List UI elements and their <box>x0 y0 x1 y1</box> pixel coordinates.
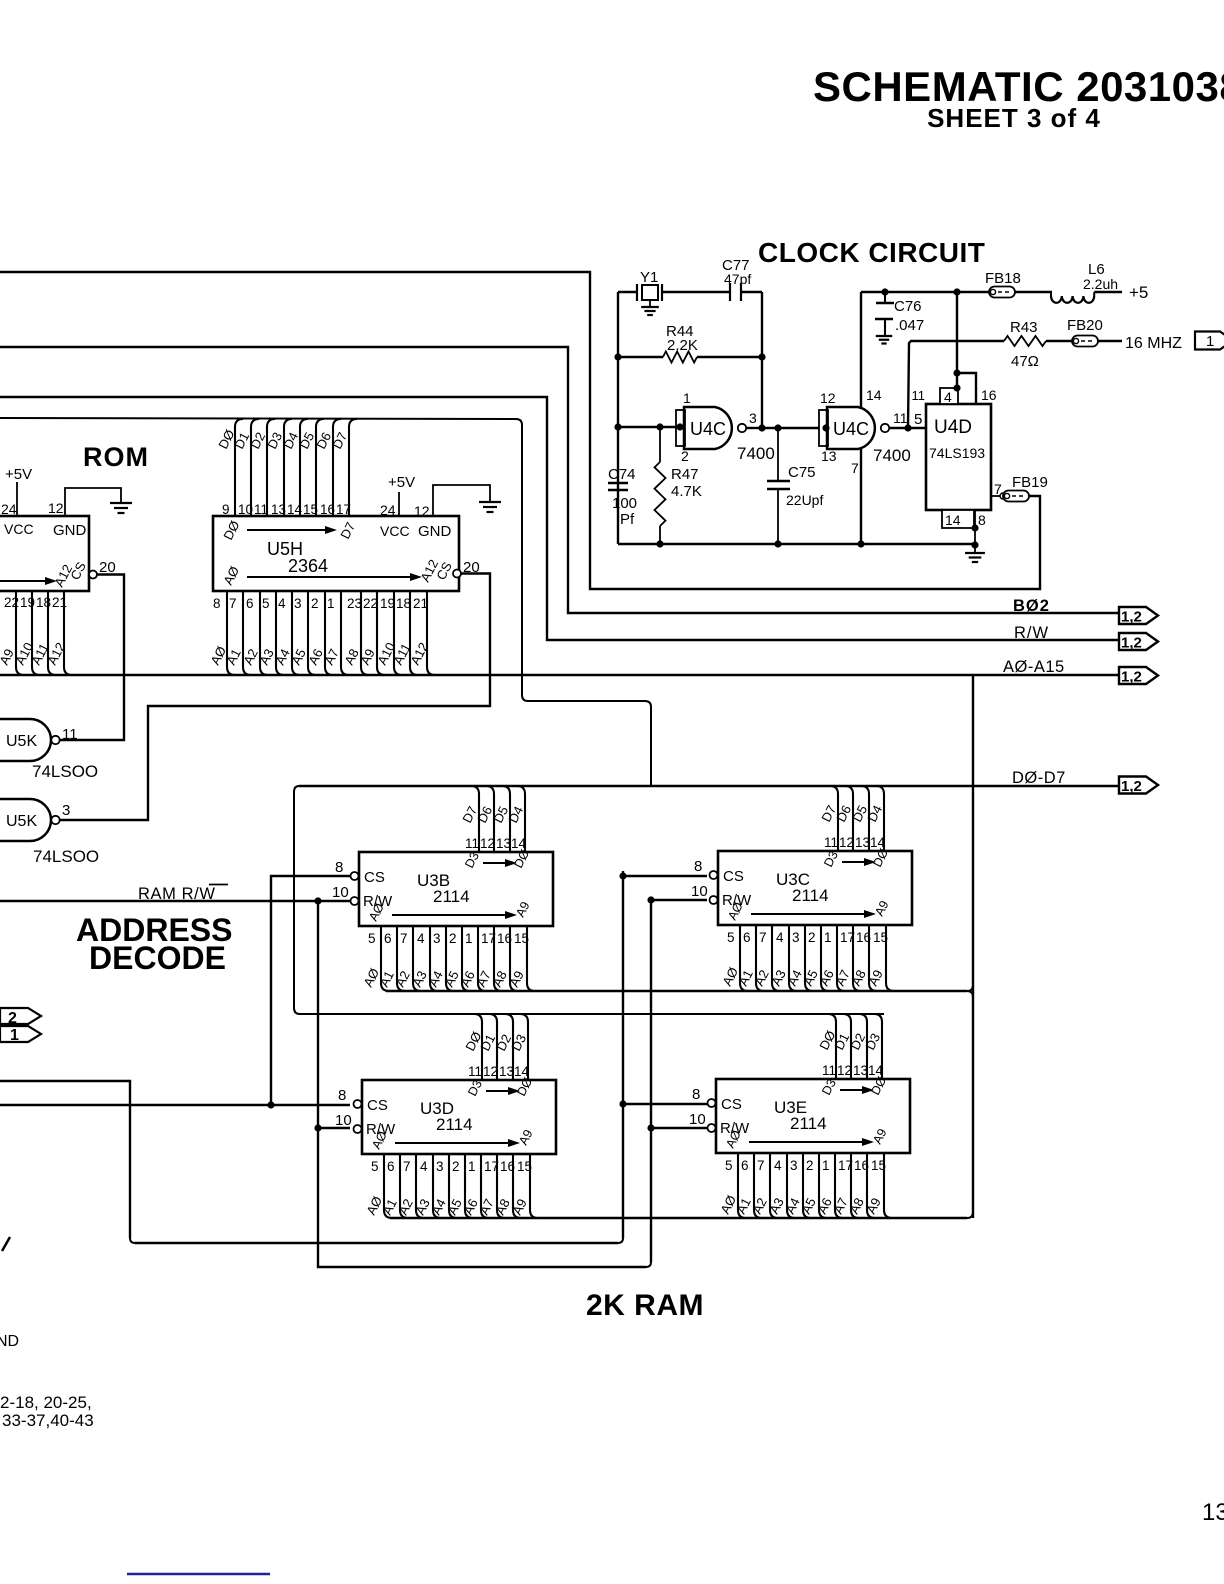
subtitle SHEET 3 of 4 <box>927 103 1101 133</box>
svg-text:13: 13 <box>853 1063 868 1078</box>
net label 16 MHZ <box>1125 335 1182 352</box>
svg-text:AØ-A15: AØ-A15 <box>1003 658 1065 676</box>
wire B02 to connector <box>0 347 1119 613</box>
U5G address labels <box>0 640 68 667</box>
U5G pin 24 +5V <box>1 466 32 517</box>
svg-text:CS: CS <box>367 1097 388 1114</box>
svg-text:1: 1 <box>824 930 832 945</box>
U5G internal A arrow <box>0 559 89 589</box>
U3C CS bubble pin 8 <box>694 858 718 879</box>
svg-text:12: 12 <box>480 836 495 851</box>
svg-text:11: 11 <box>912 388 926 403</box>
U3D R/W bubble pin 10 <box>335 1112 362 1133</box>
svg-text:24: 24 <box>1 501 17 517</box>
svg-text:15: 15 <box>871 1158 886 1173</box>
svg-text:8: 8 <box>338 1087 346 1104</box>
svg-text:23: 23 <box>347 596 362 611</box>
blue mark <box>127 1573 270 1575</box>
svg-text:17: 17 <box>481 931 496 946</box>
section label CLOCK CIRCUIT <box>758 237 985 268</box>
U5H pin 12 GND wire <box>414 485 490 519</box>
connector arrow from sheet 1 <box>0 1026 41 1044</box>
svg-text:C76: C76 <box>894 298 922 315</box>
svg-text:13: 13 <box>821 448 837 464</box>
page number 13 <box>1202 1499 1224 1526</box>
svg-text:7400: 7400 <box>737 444 775 463</box>
svg-text:11: 11 <box>468 1064 482 1079</box>
svg-text:FB19: FB19 <box>1012 474 1048 491</box>
resistor R43 47ohm <box>1004 319 1046 370</box>
net label R/W <box>1014 624 1049 642</box>
U3B data labels <box>459 804 526 826</box>
svg-text:12: 12 <box>48 500 64 516</box>
svg-text:17: 17 <box>336 502 351 517</box>
svg-text:FB18: FB18 <box>985 270 1021 287</box>
svg-text:4: 4 <box>774 1158 782 1173</box>
svg-text:2: 2 <box>808 930 816 945</box>
capacitor C75 22Upf <box>767 428 823 544</box>
svg-text:2: 2 <box>806 1158 814 1173</box>
svg-text:16: 16 <box>856 930 871 945</box>
U3E data pin numbers <box>822 1063 884 1078</box>
svg-text:U4D: U4D <box>934 417 972 438</box>
net label B02 <box>1013 597 1050 615</box>
U3E internal A arrow <box>723 1126 889 1150</box>
svg-text:1: 1 <box>1206 333 1214 350</box>
svg-text:4: 4 <box>420 1159 428 1174</box>
svg-text:1: 1 <box>822 1158 830 1173</box>
wire D0-D7 bus from ROM <box>0 418 651 786</box>
connector arrow 16MHZ to sheet 1 <box>1195 332 1224 351</box>
svg-text:12: 12 <box>820 390 836 406</box>
U3E data labels <box>816 1028 883 1052</box>
svg-text:21: 21 <box>52 595 67 610</box>
U5H CS bubble pin 20 <box>453 559 480 578</box>
svg-text:1: 1 <box>468 1159 476 1174</box>
svg-text:22: 22 <box>4 595 19 610</box>
svg-text:14: 14 <box>511 836 527 851</box>
svg-text:17: 17 <box>838 1158 853 1173</box>
U3D label R/W <box>366 1121 396 1138</box>
svg-text:10: 10 <box>332 884 349 901</box>
U5H address pin stubs <box>227 591 435 675</box>
svg-text:2114: 2114 <box>436 1115 473 1134</box>
RAM chip U3E 2114 box <box>716 1079 910 1153</box>
svg-text:U4C: U4C <box>690 419 726 439</box>
wire CS to U3E pin <box>619 872 707 1107</box>
svg-text:11: 11 <box>254 502 268 517</box>
U5H internal D arrow <box>220 518 358 542</box>
svg-text:14: 14 <box>868 1063 884 1078</box>
U5G address pin stubs <box>0 591 72 675</box>
cut-off text fragment <box>2 1237 10 1251</box>
U3C address labels <box>719 965 886 989</box>
svg-text:8: 8 <box>978 512 986 528</box>
counter U4D 74LS193 <box>912 387 997 510</box>
svg-text:12: 12 <box>414 503 430 519</box>
svg-text:4: 4 <box>944 389 952 405</box>
svg-text:13: 13 <box>855 835 870 850</box>
wire U3B CS net <box>271 876 350 1105</box>
connector arrow from sheet 2 <box>0 1008 41 1027</box>
RAM chip U3C 2114 box <box>718 851 912 925</box>
U3D data pin stubs <box>474 1014 528 1080</box>
svg-text:2114: 2114 <box>792 886 829 905</box>
svg-text:1,2: 1,2 <box>1121 669 1142 686</box>
svg-text:CS: CS <box>364 869 385 886</box>
U3C internal D arrow <box>821 846 891 869</box>
cut-off note line 1 <box>0 1393 92 1412</box>
U5H label VCC <box>380 523 410 539</box>
svg-text:CS: CS <box>723 868 744 885</box>
U3E CS bubble pin 8 <box>692 1086 716 1107</box>
wire R/W to connector <box>0 397 1119 640</box>
U3B internal D arrow <box>462 847 532 870</box>
svg-text:1,2: 1,2 <box>1121 635 1142 652</box>
svg-text:2: 2 <box>681 448 689 464</box>
svg-text:R47: R47 <box>671 466 699 483</box>
svg-text:8: 8 <box>335 859 343 876</box>
svg-text:1,2: 1,2 <box>1121 609 1142 626</box>
svg-text:1,2: 1,2 <box>1121 778 1142 795</box>
svg-text:15: 15 <box>514 931 529 946</box>
wire 16MHZ net <box>908 341 1122 428</box>
svg-text:2.2K: 2.2K <box>667 337 698 354</box>
U5H internal A arrow <box>220 557 455 587</box>
wire U3D CS net from left <box>0 1101 350 1108</box>
U3D address pin stubs <box>384 1154 538 1218</box>
U3C address pin numbers <box>727 930 888 945</box>
svg-text:DECODE: DECODE <box>89 940 226 976</box>
svg-text:33-37,40-43: 33-37,40-43 <box>2 1411 94 1430</box>
wire D0-D7 bus row to connector <box>299 780 1119 786</box>
svg-text:2: 2 <box>8 1010 17 1027</box>
wire U4C-2 pin7 GND <box>860 449 862 544</box>
svg-text:10: 10 <box>691 883 708 900</box>
wire RAM R/W net <box>0 897 350 904</box>
svg-text:16: 16 <box>500 1159 515 1174</box>
svg-text:2114: 2114 <box>433 887 470 906</box>
svg-text:5: 5 <box>725 1158 733 1173</box>
U3C data pin stubs <box>830 786 884 851</box>
section label ROM <box>83 442 149 472</box>
svg-text:14: 14 <box>866 387 882 403</box>
U3B CS bubble pin 8 <box>335 859 359 880</box>
svg-text:74LSOO: 74LSOO <box>32 762 98 781</box>
U3D internal D arrow <box>465 1075 535 1098</box>
ferrite bead FB19 <box>1003 474 1048 502</box>
svg-text:18: 18 <box>36 595 51 610</box>
svg-text:+5: +5 <box>1129 283 1148 302</box>
U5G label VCC <box>4 521 34 537</box>
svg-text:3: 3 <box>294 596 302 611</box>
U5H data pin numbers <box>222 502 351 517</box>
svg-text:22: 22 <box>363 596 378 611</box>
U5H data pin stubs <box>235 419 357 516</box>
inductor L6 2.2uh <box>1051 261 1122 303</box>
svg-text:11: 11 <box>822 1063 836 1078</box>
svg-text:3: 3 <box>436 1159 444 1174</box>
U3D data labels <box>462 1029 529 1053</box>
svg-text:19: 19 <box>20 595 35 610</box>
svg-text:GND: GND <box>53 522 87 539</box>
U3C internal A arrow <box>725 898 891 922</box>
svg-text:5: 5 <box>368 931 376 946</box>
svg-text:2K RAM: 2K RAM <box>586 1289 704 1322</box>
svg-text:17: 17 <box>840 930 855 945</box>
svg-text:17: 17 <box>484 1159 499 1174</box>
wire U4C-1 input net <box>614 423 683 430</box>
U3B data pin stubs <box>471 786 525 852</box>
U3D data pin numbers <box>468 1064 530 1079</box>
wire RAM A-bus lower row <box>390 1212 973 1218</box>
ROM chip U5H 2364 <box>213 516 459 591</box>
svg-text:3: 3 <box>792 930 800 945</box>
svg-text:4.7K: 4.7K <box>671 483 702 500</box>
svg-text:15: 15 <box>873 930 888 945</box>
svg-text:16: 16 <box>497 931 512 946</box>
connector arrow B02 to sheets 1,2 <box>1119 607 1158 626</box>
svg-text:2-18, 20-25,: 2-18, 20-25, <box>0 1393 92 1412</box>
U5H pin 24 +5V <box>380 474 415 518</box>
wire U4C-1 output to U4C-2 input <box>762 424 819 431</box>
svg-text:7: 7 <box>229 596 237 611</box>
svg-text:13: 13 <box>1202 1499 1224 1526</box>
wire crystal top net <box>618 291 762 293</box>
U3B label CS <box>364 869 385 886</box>
svg-text:14: 14 <box>945 512 961 528</box>
svg-text:9: 9 <box>222 502 230 517</box>
nand gate U4C first (7400) <box>676 390 775 464</box>
svg-text:11: 11 <box>824 835 838 850</box>
cut-off text ND <box>0 1333 19 1350</box>
section label 2K RAM <box>586 1289 704 1322</box>
svg-text:7: 7 <box>403 1159 411 1174</box>
svg-text:13: 13 <box>496 836 511 851</box>
wire +5 top rail <box>861 288 1052 295</box>
svg-text:1: 1 <box>465 931 473 946</box>
resistor R47 4.7K <box>655 427 702 544</box>
wire B02 from clock to off-page left <box>0 272 1040 589</box>
ground ROM U5H <box>479 502 501 512</box>
svg-text:15: 15 <box>303 502 318 517</box>
U3E internal D arrow <box>819 1074 889 1097</box>
svg-text:8: 8 <box>213 596 221 611</box>
capacitor C77 47pf <box>722 257 751 301</box>
svg-text:3: 3 <box>749 410 757 426</box>
svg-text:74LSOO: 74LSOO <box>33 847 99 866</box>
svg-text:11: 11 <box>465 836 479 851</box>
wire U5G CS to U5K-1 output <box>59 575 124 741</box>
net label RAM R/W <box>138 885 228 904</box>
label 74LS00 second <box>33 847 99 866</box>
svg-text:ND: ND <box>0 1333 19 1350</box>
svg-text:7400: 7400 <box>873 446 911 465</box>
U3B internal A arrow <box>366 899 532 923</box>
wire R/W to U3E pin <box>651 1127 707 1129</box>
title text SCHEMATIC 2031038 <box>813 63 1224 110</box>
svg-text:3: 3 <box>790 1158 798 1173</box>
U3B data pin numbers <box>465 836 527 851</box>
wire right CS net from left <box>0 871 623 1243</box>
svg-text:BØ2: BØ2 <box>1013 597 1050 615</box>
wire RAM R/W drop to U3D <box>314 900 654 1267</box>
svg-text:CS: CS <box>721 1096 742 1113</box>
ferrite bead FB18 <box>985 270 1021 298</box>
svg-text:4: 4 <box>776 930 784 945</box>
U3C R/W bubble pin 10 <box>691 883 718 904</box>
U5H address labels A0-A12 <box>207 640 431 667</box>
label 74LS00 first <box>32 762 98 781</box>
U3D CS bubble pin 8 <box>338 1087 362 1108</box>
svg-text:U4C: U4C <box>833 419 869 439</box>
svg-text:6: 6 <box>246 596 254 611</box>
connector arrow R/W to sheets 1,2 <box>1119 633 1158 652</box>
svg-text:GND: GND <box>418 523 452 540</box>
svg-text:5: 5 <box>727 930 735 945</box>
svg-text:13: 13 <box>271 502 286 517</box>
net label +5 <box>1129 283 1148 302</box>
wire clock left rail <box>617 292 619 544</box>
svg-text:DØ-D7: DØ-D7 <box>1012 769 1066 787</box>
svg-text:VCC: VCC <box>4 521 34 537</box>
U3E data pin stubs <box>828 1014 882 1079</box>
ground clock circuit <box>965 553 985 562</box>
U3B address pin stubs <box>381 926 535 991</box>
svg-text:19: 19 <box>380 596 395 611</box>
svg-text:+5V: +5V <box>388 474 415 491</box>
net label A0-A15 <box>1003 658 1065 676</box>
svg-text:2: 2 <box>452 1159 460 1174</box>
svg-text:21: 21 <box>413 596 428 611</box>
svg-text:7: 7 <box>851 460 859 476</box>
svg-text:11: 11 <box>62 726 78 743</box>
U3E address pin numbers <box>725 1158 886 1173</box>
svg-text:2364: 2364 <box>288 556 328 576</box>
svg-text:11: 11 <box>893 410 908 426</box>
svg-text:10: 10 <box>689 1111 706 1128</box>
svg-text:2: 2 <box>449 931 457 946</box>
svg-text:C74: C74 <box>608 466 636 483</box>
wire U5K-2 output to U5H CS <box>59 574 490 821</box>
svg-text:SHEET 3 of 4: SHEET 3 of 4 <box>927 103 1101 133</box>
svg-text:22Upf: 22Upf <box>786 492 823 508</box>
svg-text:74LS193: 74LS193 <box>929 445 985 461</box>
svg-text:12: 12 <box>839 835 854 850</box>
svg-text:FB20: FB20 <box>1067 317 1103 334</box>
wire R/W to U3C pin <box>647 896 707 903</box>
U3E label R/W <box>720 1120 750 1137</box>
section label ADDRESS DECODE <box>76 912 232 976</box>
svg-text:Pf: Pf <box>620 511 635 528</box>
U4D pin 4 box <box>940 388 958 405</box>
resistor R44 2.2K <box>614 323 765 363</box>
svg-text:2.2uh: 2.2uh <box>1083 276 1118 292</box>
RAM chip U3B 2114 box <box>359 852 553 926</box>
svg-text:100: 100 <box>612 495 637 512</box>
svg-text:U5K: U5K <box>6 813 37 830</box>
svg-text:10: 10 <box>238 502 253 517</box>
U5H data labels D0-D7 <box>215 427 350 451</box>
svg-text:10: 10 <box>335 1112 352 1129</box>
svg-text:7: 7 <box>759 930 767 945</box>
wire U4C-2 pin14 VCC <box>860 292 862 407</box>
svg-text:1: 1 <box>10 1027 19 1044</box>
svg-text:R43: R43 <box>1010 319 1038 336</box>
svg-text:3: 3 <box>62 802 70 819</box>
U3C data pin numbers <box>824 835 886 850</box>
svg-text:U5K: U5K <box>6 733 37 750</box>
svg-text:15: 15 <box>517 1159 532 1174</box>
U5G CS bubble pin 20 <box>89 559 116 579</box>
svg-text:ROM: ROM <box>83 442 149 472</box>
svg-text:8: 8 <box>692 1086 700 1103</box>
connector arrow D0-D7 to sheets 1,2 <box>1119 777 1158 796</box>
svg-text:4: 4 <box>278 596 286 611</box>
ground ROM U5G <box>110 503 132 513</box>
svg-text:16: 16 <box>320 502 335 517</box>
svg-text:2: 2 <box>311 596 319 611</box>
svg-text:6: 6 <box>384 931 392 946</box>
wire U4C-2 output node to U4D pin5 <box>904 411 926 432</box>
svg-text:5: 5 <box>262 596 270 611</box>
svg-text:4: 4 <box>417 931 425 946</box>
nand gate U4C second (7400) <box>819 387 911 476</box>
cut-off note line 2 <box>2 1411 94 1430</box>
svg-text:.047: .047 <box>895 317 924 334</box>
wire CS to U3C pin <box>623 875 707 877</box>
svg-text:12: 12 <box>483 1064 498 1079</box>
nand gate U5K second (74LS00) <box>0 799 70 841</box>
svg-text:1: 1 <box>327 596 335 611</box>
wire U4D pin 8 ground <box>971 510 986 553</box>
nand gate U5K first (74LS00) <box>0 719 78 761</box>
svg-text:47Ω: 47Ω <box>1011 353 1039 370</box>
U4D pin 14 box <box>942 510 974 528</box>
svg-text:5: 5 <box>371 1159 379 1174</box>
wire clock right rail <box>761 292 763 428</box>
svg-text:CLOCK CIRCUIT: CLOCK CIRCUIT <box>758 237 985 268</box>
svg-text:7: 7 <box>400 931 408 946</box>
U3E address labels <box>717 1193 884 1217</box>
svg-text:13: 13 <box>499 1064 514 1079</box>
svg-text:6: 6 <box>387 1159 395 1174</box>
wire R/W to U3D pin <box>318 1127 350 1129</box>
wire D bus drop to lower RAM row <box>294 786 884 1014</box>
capacitor C74 100pf <box>608 466 637 528</box>
svg-text:Y1: Y1 <box>640 269 658 286</box>
svg-text:14: 14 <box>870 835 886 850</box>
svg-text:16 MHZ: 16 MHZ <box>1125 335 1182 352</box>
U5G pin 12 GND wire <box>48 488 121 516</box>
svg-text:2114: 2114 <box>790 1114 827 1133</box>
U3C label CS <box>723 868 744 885</box>
U3C address pin stubs <box>740 925 894 991</box>
svg-text:14: 14 <box>287 502 303 517</box>
crystal Y1 <box>637 269 662 315</box>
wire A0-A15 bus <box>0 674 1119 676</box>
U3D address pin numbers <box>371 1159 532 1174</box>
svg-text:1: 1 <box>683 390 691 406</box>
U5G pin numbers <box>4 595 67 610</box>
svg-text:8: 8 <box>694 858 702 875</box>
svg-text:3: 3 <box>433 931 441 946</box>
net label D0-D7 <box>1012 769 1066 787</box>
wire U4D +5 supply <box>953 292 976 404</box>
U3B address pin numbers <box>368 931 529 946</box>
U5H pin numbers <box>213 596 428 611</box>
svg-text:6: 6 <box>741 1158 749 1173</box>
